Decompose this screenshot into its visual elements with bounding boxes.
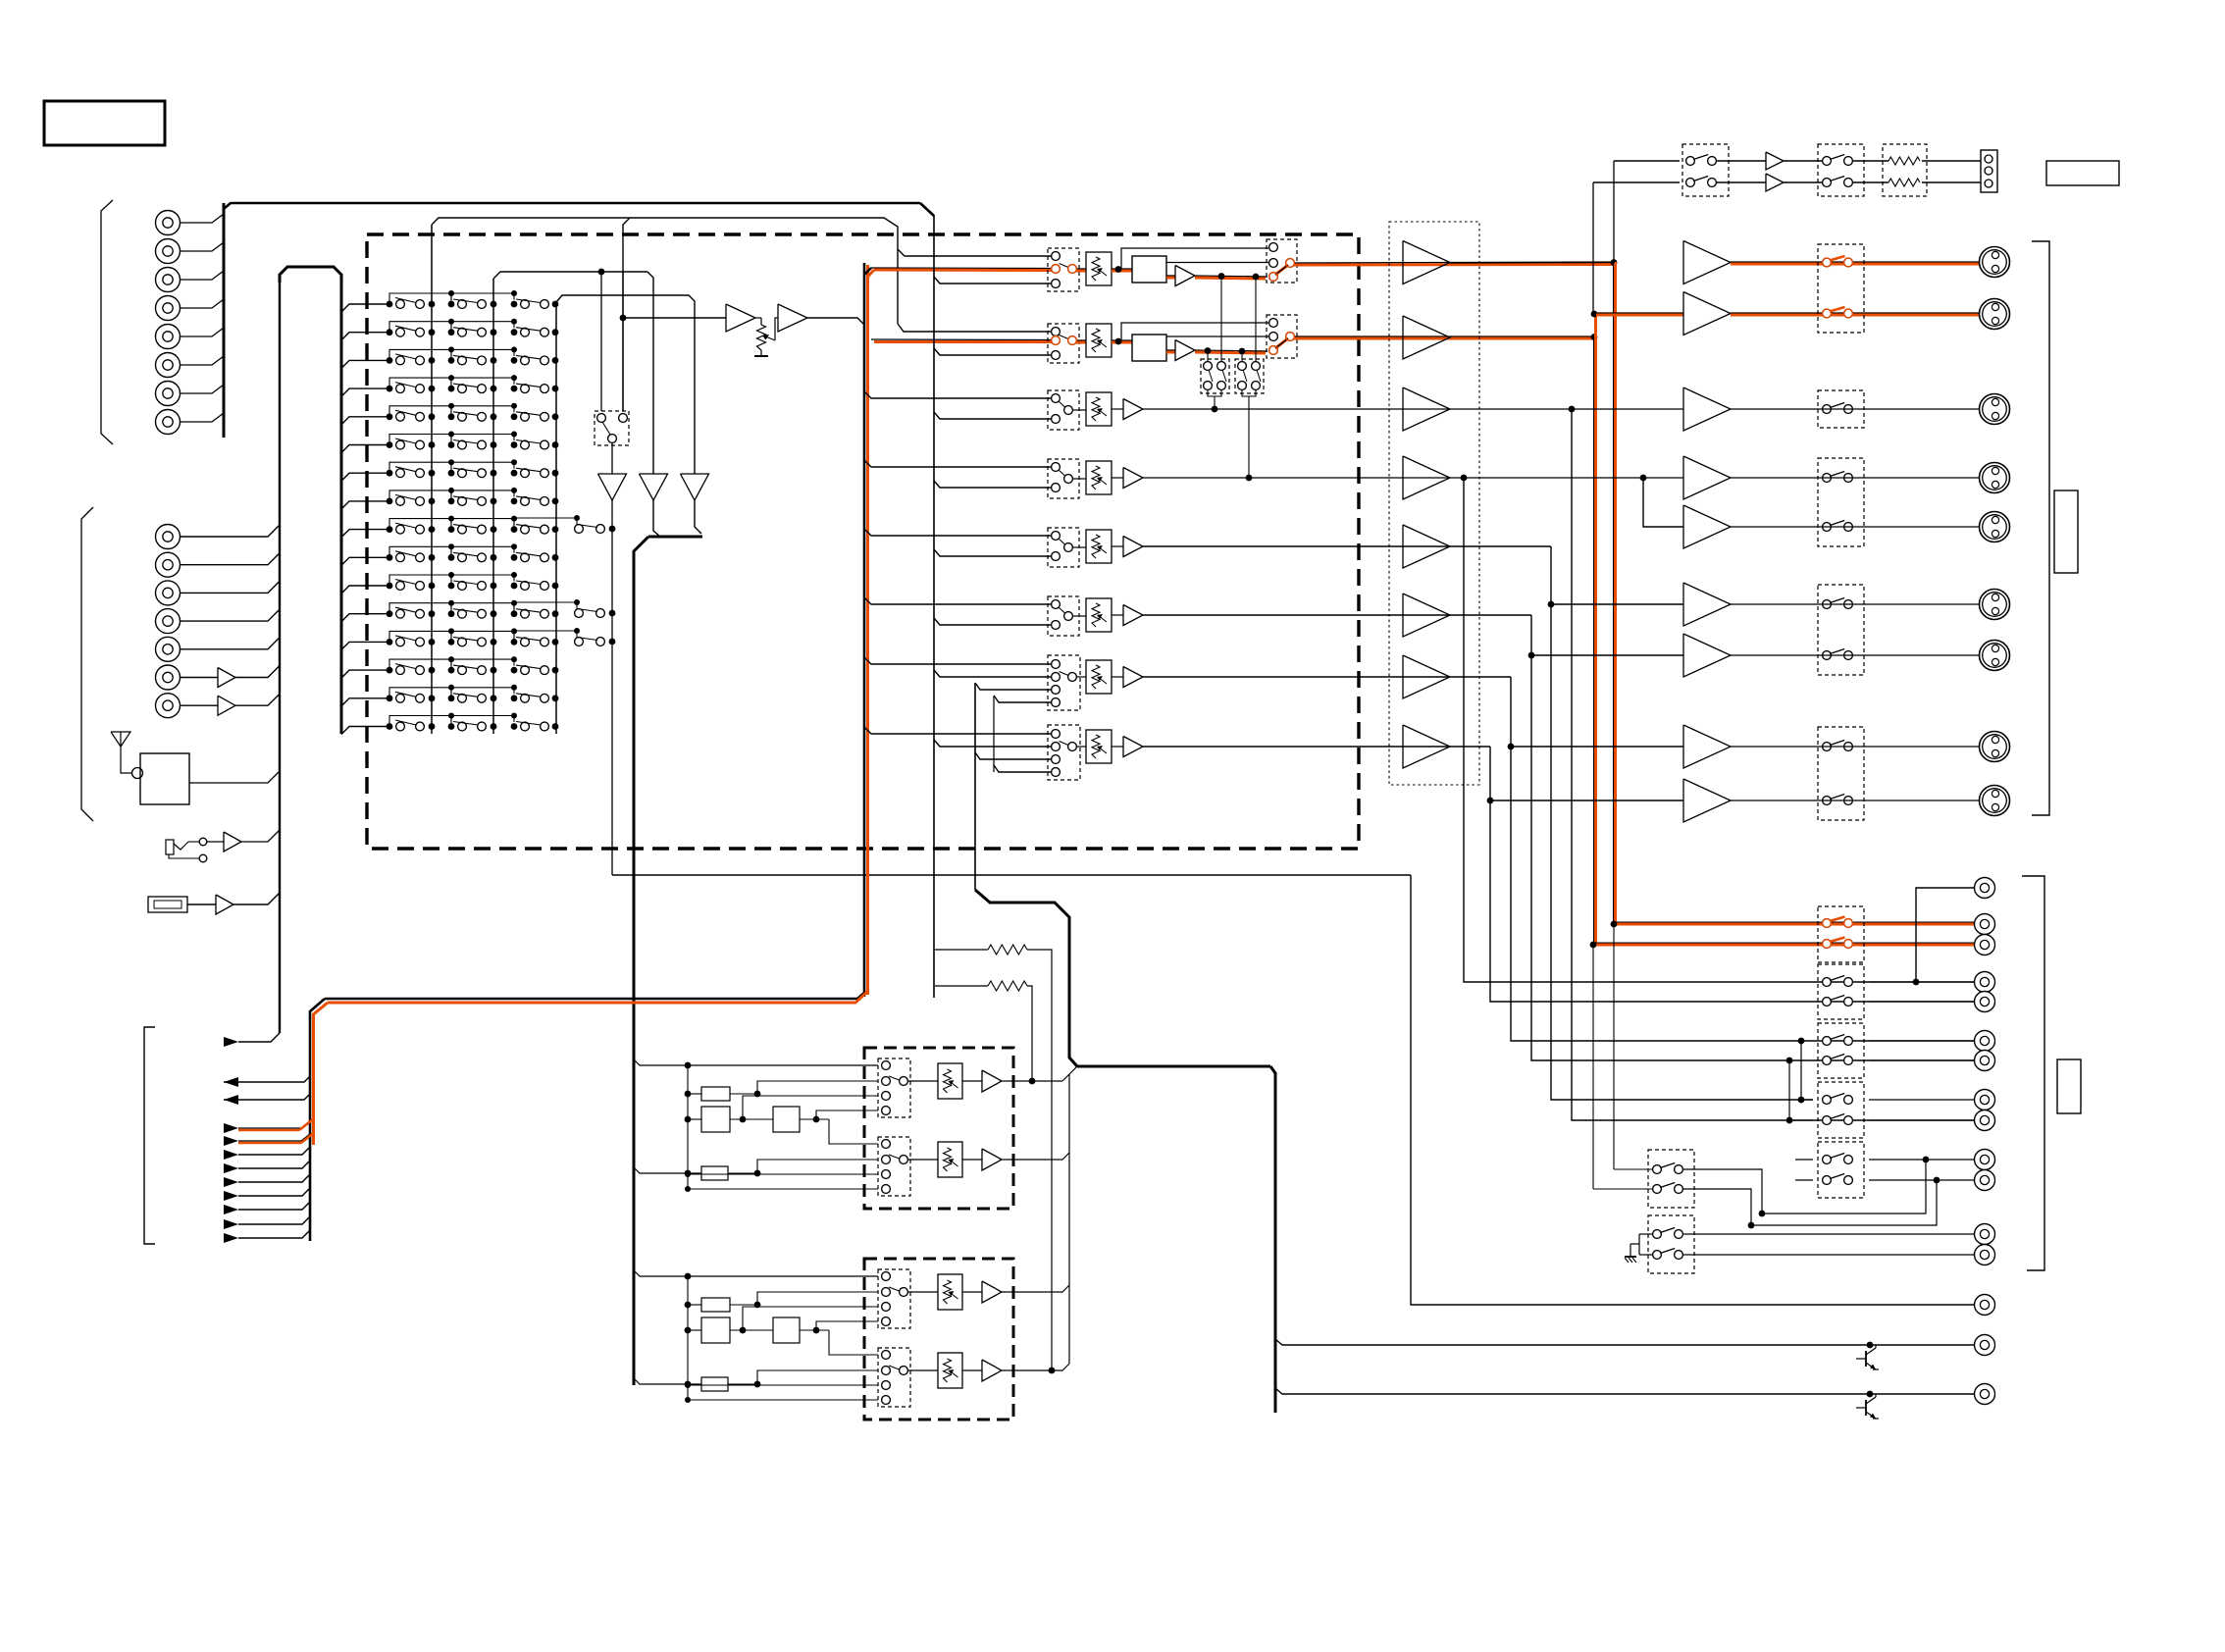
matrix switch r15c1 [387,695,393,701]
ch6 line [1143,614,1531,616]
rec tap to phones L up [1613,161,1615,262]
ch5 volume [1072,546,1086,548]
matrix switch r1c2 [448,301,455,308]
antenna [111,732,130,747]
wire power out [1731,746,1979,748]
rec jack [1975,935,1995,955]
matrix switch r13c3 [511,639,518,645]
mono switch dashed box [595,411,629,445]
wire step [451,519,514,530]
wire power out [1731,603,1979,605]
ch2 bypass wire [1166,336,1268,337]
wire mono to sub jack [1411,875,1974,1305]
ch4 input selector [1048,459,1079,498]
rec tap to phones R up [1592,182,1594,314]
matrix switch r8c2 [448,498,455,505]
matrix row 9 input stub [341,530,389,538]
ch1 orange line [871,267,1051,270]
matrix row 1 input stub [341,304,389,312]
ch2 volume [1086,324,1112,357]
matrix switch r4c2 [448,386,455,392]
zone B volume 1 [907,1291,938,1293]
zone A volume 1 [907,1080,938,1082]
wire drops [1241,351,1243,362]
ch2 driver amp [1175,340,1195,361]
rec switch box orange [1818,906,1864,962]
orange power out L [1731,261,1980,263]
wire master line [623,317,726,319]
ch7 input selector [1048,655,1080,710]
matrix row 8 input stub [341,501,389,509]
wire step [389,631,451,642]
matrix switch r11c2 [448,583,455,590]
matrix switch r1c3 [511,301,518,308]
dashed box selector matrix [367,234,1359,849]
matrix row 16 input stub [341,727,389,735]
ch7 volume [1076,676,1086,678]
wire [755,317,761,319]
ch3 line [1143,408,1683,410]
rec jack [1975,1110,1995,1131]
ext arrow 7 [224,1205,238,1214]
power amp [1683,634,1731,677]
ext arrow 6 [224,1191,238,1201]
tuner box [140,753,189,804]
wire step [451,462,514,473]
dot [620,315,627,322]
zone A bus branch 2 [634,1167,701,1173]
ground [1630,1250,1631,1257]
matrix feed bus bend [280,267,341,734]
wire step [451,575,514,586]
ch2 orange line [871,338,1051,341]
wire line out 2 [1275,1339,1974,1345]
orange power out R [1731,312,1980,314]
orange circles ch2 selector [1052,336,1061,345]
ch5 line [1143,545,1551,547]
zone A relay 1 [701,1087,730,1101]
rec jack [1975,1245,1995,1265]
matrix switch r2c1 [387,329,393,336]
matrix row 13 input stub [341,642,389,649]
speaker relay box 5 [1818,727,1864,820]
zone B bus branch 1 [634,1270,878,1276]
ext arrow 9 [224,1233,238,1243]
wire step [451,546,514,557]
sum amp L [598,474,627,500]
ch6 input lines [864,597,1051,604]
input jack 2-1 [156,525,181,549]
dot [1611,259,1618,266]
wire step [389,378,451,388]
dot [1205,347,1212,354]
row E1 [1795,1159,1813,1161]
wire step [389,603,451,614]
ch8 input selector [1048,725,1080,780]
ch4 volume [1072,478,1086,480]
mix resistor 2 [935,985,988,987]
matrix switch r15c2 [448,695,455,701]
ext arrow out 2 [224,1095,238,1105]
input jack 1-2 [156,239,181,264]
phones amp R [1766,174,1784,191]
wire [241,830,280,842]
orange circles ch1 output switch [1269,273,1278,282]
orange rec out R [1596,944,1977,947]
ch1 driver amp [1175,266,1195,286]
matrix switch r10c3 [511,554,518,561]
ch2 orange to tone [1112,339,1132,341]
phones switch box 2 [1818,144,1864,196]
input jack 1-3 [156,268,181,292]
ch7 buffer amp [1112,676,1123,678]
dot [1528,652,1535,659]
dot [598,269,605,276]
input jack 2-7 [156,694,181,718]
wire step [451,349,514,360]
wire step [389,349,451,360]
zone A selector 2 [878,1137,910,1196]
wire master feed [622,272,624,411]
rec jack [1975,1170,1995,1191]
input jack 2-5 [156,637,181,661]
wire wiper [775,318,778,340]
orange jog ch2 up [1594,314,1597,336]
wire tone bypass riser [1121,248,1268,269]
wire [181,328,224,336]
main mix bus orange [866,265,869,995]
matrix row 3 input stub [341,360,389,368]
wire [181,242,224,251]
input jack 2-2 [156,552,181,577]
phones resistor box [1883,144,1927,196]
zone A amp 1 [962,1080,982,1082]
ch1 tone box [1132,256,1166,283]
wire tape sw2 out [1682,1233,1974,1235]
zone B out 1 [1002,1285,1069,1292]
wire power out [1731,477,1979,479]
rec switch box B [1818,964,1864,1019]
orange speaker relay levers [1830,256,1845,261]
sum amp R [640,474,668,500]
matrix switch r10c2 [448,554,455,561]
transistor mute 2 [1867,1391,1874,1398]
rec jack [1975,992,1995,1012]
wire [181,677,218,679]
wire [1922,160,1981,162]
orange through pre amp ch1 [1450,262,1615,265]
mix resistor 1 [935,949,988,951]
zone A relay 4 [701,1166,728,1180]
matrix switch r2c3 [511,329,518,336]
wire [181,413,224,422]
zone B relay 3 [773,1317,800,1343]
ch1 orange line right [1294,262,1615,263]
wire step [451,490,514,501]
ext arrow rec R orange [224,1136,238,1146]
bracket speaker terminals [2032,241,2049,815]
wire bus1 to rec selector [432,218,898,324]
headphone jack [1981,150,1997,192]
matrix switch r5c3 [511,413,518,420]
ext arrow 8 [224,1219,238,1229]
ext arrow in 1 [224,1037,238,1047]
ch3 input selector [1048,390,1079,430]
wire step [389,322,451,333]
ch5 input selector [1048,528,1079,567]
wire to power amp [1551,603,1683,605]
matrix switch r11c3 [511,583,518,590]
matrix sum switch [514,518,577,529]
zone A out 2 [1002,1153,1069,1160]
wire [187,903,216,905]
zone A amp 2 [962,1159,982,1161]
speaker relay box 2 [1818,390,1864,428]
ch2 orange lever [1275,338,1288,348]
wire step [451,716,514,727]
wire step [389,546,451,557]
matrix bus 2 vertical [492,279,494,734]
speaker terminal [1980,299,2010,330]
ch4 line [1143,477,1683,479]
ch8 volume [1076,746,1086,748]
dot [1115,266,1122,273]
rec jack [1975,914,1995,935]
matrix row 14 input stub [341,670,389,678]
phones switch box 1 [1682,144,1729,196]
matrix switch r14c2 [448,667,455,674]
source bus 2 vertical [933,215,935,998]
wire phones R [1593,181,1680,183]
ch5 drop [1551,546,1813,1100]
wire join [1242,389,1256,396]
wire bus3 top [556,295,695,474]
zone A selector 1 [878,1058,910,1117]
aux feed vertical [993,696,995,772]
wire [181,525,280,537]
dot [1115,338,1122,345]
wire phones L [1614,160,1680,162]
dot [1461,475,1468,482]
orange circles ch2 output switch [1269,346,1278,355]
zone B volume 2 [907,1369,938,1371]
matrix row 2 input stub [341,333,389,340]
matrix sum switch [514,631,577,642]
tape switch box 1 [1648,1150,1694,1208]
zone B amp 2 [962,1369,982,1371]
wire weave 1 [1682,1160,1926,1213]
wire branch to row1 top [898,249,1051,256]
matrix sum switch [514,602,577,613]
ch2 output switch box [1267,315,1297,358]
speaker terminal [1980,732,2010,762]
wire step [389,462,451,473]
wire [181,385,224,393]
ext arrow 5 [224,1177,238,1187]
wire [1784,160,1825,162]
rec tap orange L down [1614,262,1617,924]
rec tap orange R down [1594,336,1597,945]
dot [1548,601,1555,608]
ch2 tone box [1132,335,1166,361]
ch8 line [1143,746,1490,748]
matrix switch r9c3 [511,526,518,533]
bracket external [144,1027,155,1244]
ch1 orange out of tone [1166,275,1175,277]
wire step [451,378,514,388]
dot [1487,798,1494,804]
dot [1591,334,1598,340]
matrix switch r8c3 [511,498,518,505]
ch8 buffer amp [1112,746,1123,748]
vertical links [1798,1097,1805,1104]
rec switch box D [1818,1082,1864,1138]
zone A bus branch 1 [634,1059,878,1065]
pre amp [1403,456,1450,499]
rec feed to tape 2 [1592,945,1594,1189]
input jack 1-6 [156,353,181,378]
wire step [389,575,451,586]
wire tone bypass riser [1121,323,1268,340]
matrix row 6 input stub [341,445,389,453]
ch2 pre amp [1403,316,1450,359]
branch to ch2 bottom [934,348,1051,355]
ch1 orange through selector [1076,268,1086,270]
matrix switch r3c1 [387,357,393,364]
wire [1716,160,1766,162]
matrix switch r5c2 [448,413,455,420]
matrix bus 1 vertical [431,225,433,734]
zone merge vertical [1068,1074,1070,1364]
wire [181,581,280,593]
buffer amp aux [216,895,233,914]
matrix switch r4c1 [387,386,393,392]
wire line out 3 [1275,1388,1974,1394]
pre amp [1403,387,1450,431]
ch4 input lines [864,460,1051,467]
matrix switch r12c3 [511,610,518,617]
matrix switch r16c1 [387,723,393,730]
buffer amp jack2-6 [218,668,235,688]
master buffer amp 1 [726,304,755,332]
zone A out 1 [1002,1080,1062,1082]
rec switch box E [1818,1142,1864,1198]
wire sum R to merge [653,500,660,537]
transistor mute 1 [1867,1342,1874,1349]
input jack 2-6 [156,665,181,690]
wire [1852,160,1889,162]
wire power out [1731,408,1979,410]
sum amp mono [681,474,709,500]
thick rec path [975,890,1077,1066]
bracket input group 1 [101,200,113,444]
wire step [389,435,451,445]
zone A dashed box [864,1048,1013,1209]
matrix switch r2c2 [448,329,455,336]
speaker relay box 4 [1818,585,1864,675]
wire rec rows D [1801,1099,1813,1101]
wire sum mono to merge [695,500,701,534]
matrix switch r11c1 [387,583,393,590]
wire step [389,519,451,530]
wire drops [1207,351,1209,363]
pre amp [1403,525,1450,568]
wire sum L down [611,500,613,529]
label box top-left [44,101,165,145]
wire join [1208,389,1221,396]
matrix switch r6c3 [511,441,518,448]
wire mono sw left feed [600,272,602,411]
wire step [451,603,514,614]
pre amp [1403,725,1450,768]
matrix switch r16c3 [511,723,518,730]
branch to ch1 bottom [934,277,1051,284]
ch5 input lines [864,529,1051,536]
ch1 bypass wire [1166,262,1268,264]
input jack 1-1 [156,211,181,235]
ch2 orange out of tone [1166,349,1175,351]
ch7 input lines [864,657,1051,664]
wire phono bus corner [920,203,934,216]
speaker relay box 3 [1818,458,1864,546]
ch2 orange after driver [1195,350,1268,351]
switch phone [199,838,207,846]
pre amp [1403,655,1450,698]
speaker terminal [1980,394,2010,425]
wire [181,609,280,621]
wire rec rows C [1869,1040,1974,1042]
ch1 orange after driver [1195,276,1268,277]
matrix row 7 input stub [341,473,389,481]
power amp [1683,387,1731,431]
loop switch box B [1235,359,1264,393]
ch1 orange lever [1275,265,1288,275]
dot [1218,273,1225,280]
wire step [451,435,514,445]
ch6 buffer amp [1112,614,1123,616]
fuse symbol [148,897,187,912]
thick merge bar [648,536,702,539]
ch4 buffer amp [1112,477,1123,479]
ext arrow 3 [224,1150,238,1160]
zone A relay 3 [773,1107,800,1132]
wire to sum amp R [647,272,653,474]
phones amp L [1766,152,1784,170]
matrix row 11 input stub [341,586,389,594]
wire step [451,631,514,642]
loop switch box A [1201,359,1229,393]
ch3 volume [1072,409,1086,411]
matrix bus 3 vertical [555,302,557,734]
zone B bus branch 2 [634,1378,701,1384]
ch1 output switch box [1267,239,1297,283]
input jack 1-7 [156,382,181,406]
wire [181,553,280,565]
wire [181,214,224,223]
power amp [1683,725,1731,768]
matrix row 12 input stub [341,614,389,622]
matrix switch r14c3 [511,667,518,674]
wire bus2 top [493,272,647,279]
rec jack [1975,972,1995,993]
matrix switch r16c2 [448,723,455,730]
matrix switch r13c2 [448,639,455,645]
wire [235,666,280,678]
input bus vertical [223,203,226,438]
wire sum mono line [612,874,1411,876]
input jack 1-5 [156,325,181,349]
ch6 input selector [1048,596,1079,636]
